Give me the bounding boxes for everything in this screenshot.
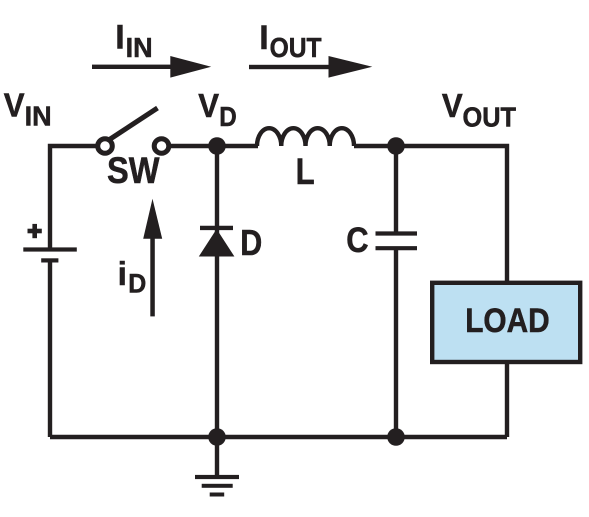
svg-text:OUT: OUT xyxy=(463,101,517,132)
arrow IIN xyxy=(92,56,211,78)
svg-text:I: I xyxy=(115,19,124,57)
capacitor C top plate xyxy=(376,231,418,235)
battery V1 plates xyxy=(23,247,77,262)
wire: capacitor branch lower xyxy=(394,248,398,437)
junction dot: diode at ground rail xyxy=(208,428,226,446)
wire: inductor to Vout corner down to LOAD top xyxy=(354,146,507,281)
svg-text:D: D xyxy=(128,269,146,299)
wire: diode branch vertical xyxy=(215,146,219,437)
battery plus sign xyxy=(28,224,42,238)
junction dot: node Vout xyxy=(387,137,405,155)
wire: ground stub xyxy=(215,437,219,477)
svg-text:V: V xyxy=(442,87,463,124)
svg-text:C: C xyxy=(346,221,368,260)
wire: LOAD bottom down to ground rail xyxy=(505,364,509,437)
svg-text:L: L xyxy=(296,151,315,192)
wire: bottom ground rail xyxy=(50,435,507,439)
LOAD box xyxy=(432,283,580,362)
svg-text:D: D xyxy=(240,222,262,263)
ground symbol xyxy=(195,475,239,497)
svg-text:IN: IN xyxy=(126,32,153,63)
svg-text:SW: SW xyxy=(107,150,160,191)
svg-text:V: V xyxy=(198,87,219,124)
svg-text:OUT: OUT xyxy=(270,32,322,63)
wire: capacitor branch upper xyxy=(394,146,398,233)
switch SW contact circles xyxy=(98,139,169,154)
svg-text:V: V xyxy=(4,87,25,124)
svg-text:I: I xyxy=(259,19,268,57)
junction dot: node VD xyxy=(208,137,226,155)
junction dot: capacitor at ground rail xyxy=(387,428,405,446)
diode D triangle xyxy=(199,229,235,257)
svg-text:IN: IN xyxy=(25,101,52,132)
wire: Vin top-left corner from battery up to switch xyxy=(50,146,104,250)
diode D cathode bar xyxy=(200,226,233,230)
inductor L xyxy=(257,128,354,146)
svg-text:i: i xyxy=(118,256,127,293)
svg-text:LOAD: LOAD xyxy=(465,302,550,340)
arrow IOUT xyxy=(249,56,372,78)
svg-text:D: D xyxy=(219,101,237,132)
wire: switch output to node VD and on to inductor xyxy=(161,144,258,148)
switch SW blade xyxy=(110,108,158,140)
capacitor C bottom plate xyxy=(376,246,418,250)
arrow iD xyxy=(143,199,162,317)
wire: battery minus down to bottom rail xyxy=(48,261,52,437)
